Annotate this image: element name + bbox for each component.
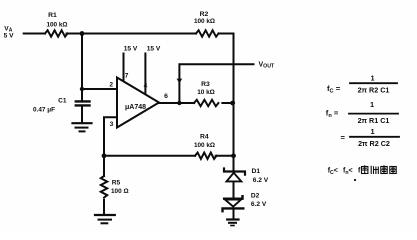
- svg-text:1: 1: [370, 100, 374, 109]
- svg-text:6.2 V: 6.2 V: [251, 201, 267, 208]
- svg-text:15 V: 15 V: [147, 46, 161, 53]
- svg-text:2π R2 C2: 2π R2 C2: [358, 139, 390, 148]
- svg-text:VOUT: VOUT: [259, 62, 275, 70]
- svg-text:6: 6: [164, 93, 168, 100]
- svg-text:15 V: 15 V: [124, 46, 138, 53]
- svg-text:D1: D1: [252, 168, 261, 175]
- svg-text:R3: R3: [201, 81, 210, 88]
- svg-text:100 Ω: 100 Ω: [111, 188, 129, 195]
- svg-text:1: 1: [370, 74, 374, 83]
- svg-text:2π R2 C1: 2π R2 C1: [358, 85, 390, 94]
- svg-text:fC =: fC =: [327, 84, 341, 94]
- svg-text:7: 7: [125, 73, 129, 80]
- svg-text:2π R1 C1: 2π R1 C1: [358, 116, 390, 125]
- svg-text:6.2 V: 6.2 V: [253, 177, 269, 184]
- svg-text:100 kΩ: 100 kΩ: [46, 22, 67, 29]
- svg-text:fC<: fC<: [328, 168, 338, 176]
- svg-text:100 kΩ: 100 kΩ: [194, 18, 215, 25]
- svg-text:C1: C1: [58, 98, 67, 105]
- svg-text:fn =: fn =: [326, 108, 339, 118]
- svg-text:2: 2: [109, 82, 113, 89]
- svg-text:R1: R1: [48, 12, 57, 19]
- svg-text:=: =: [341, 133, 346, 142]
- svg-text:D2: D2: [251, 193, 260, 200]
- svg-text:100 kΩ: 100 kΩ: [194, 142, 215, 149]
- svg-text:3: 3: [110, 121, 114, 128]
- svg-text:10 kΩ: 10 kΩ: [197, 89, 215, 96]
- svg-text:R4: R4: [200, 134, 209, 141]
- svg-text:0.47 μF: 0.47 μF: [33, 107, 55, 114]
- svg-text:5 V: 5 V: [4, 33, 14, 40]
- svg-text:1: 1: [370, 127, 374, 136]
- svg-text:4: 4: [144, 82, 148, 89]
- svg-text:μA748: μA748: [125, 104, 146, 111]
- svg-text:fn<: fn<: [343, 168, 353, 176]
- svg-text:R2: R2: [200, 11, 209, 18]
- svg-text:R5: R5: [112, 179, 121, 186]
